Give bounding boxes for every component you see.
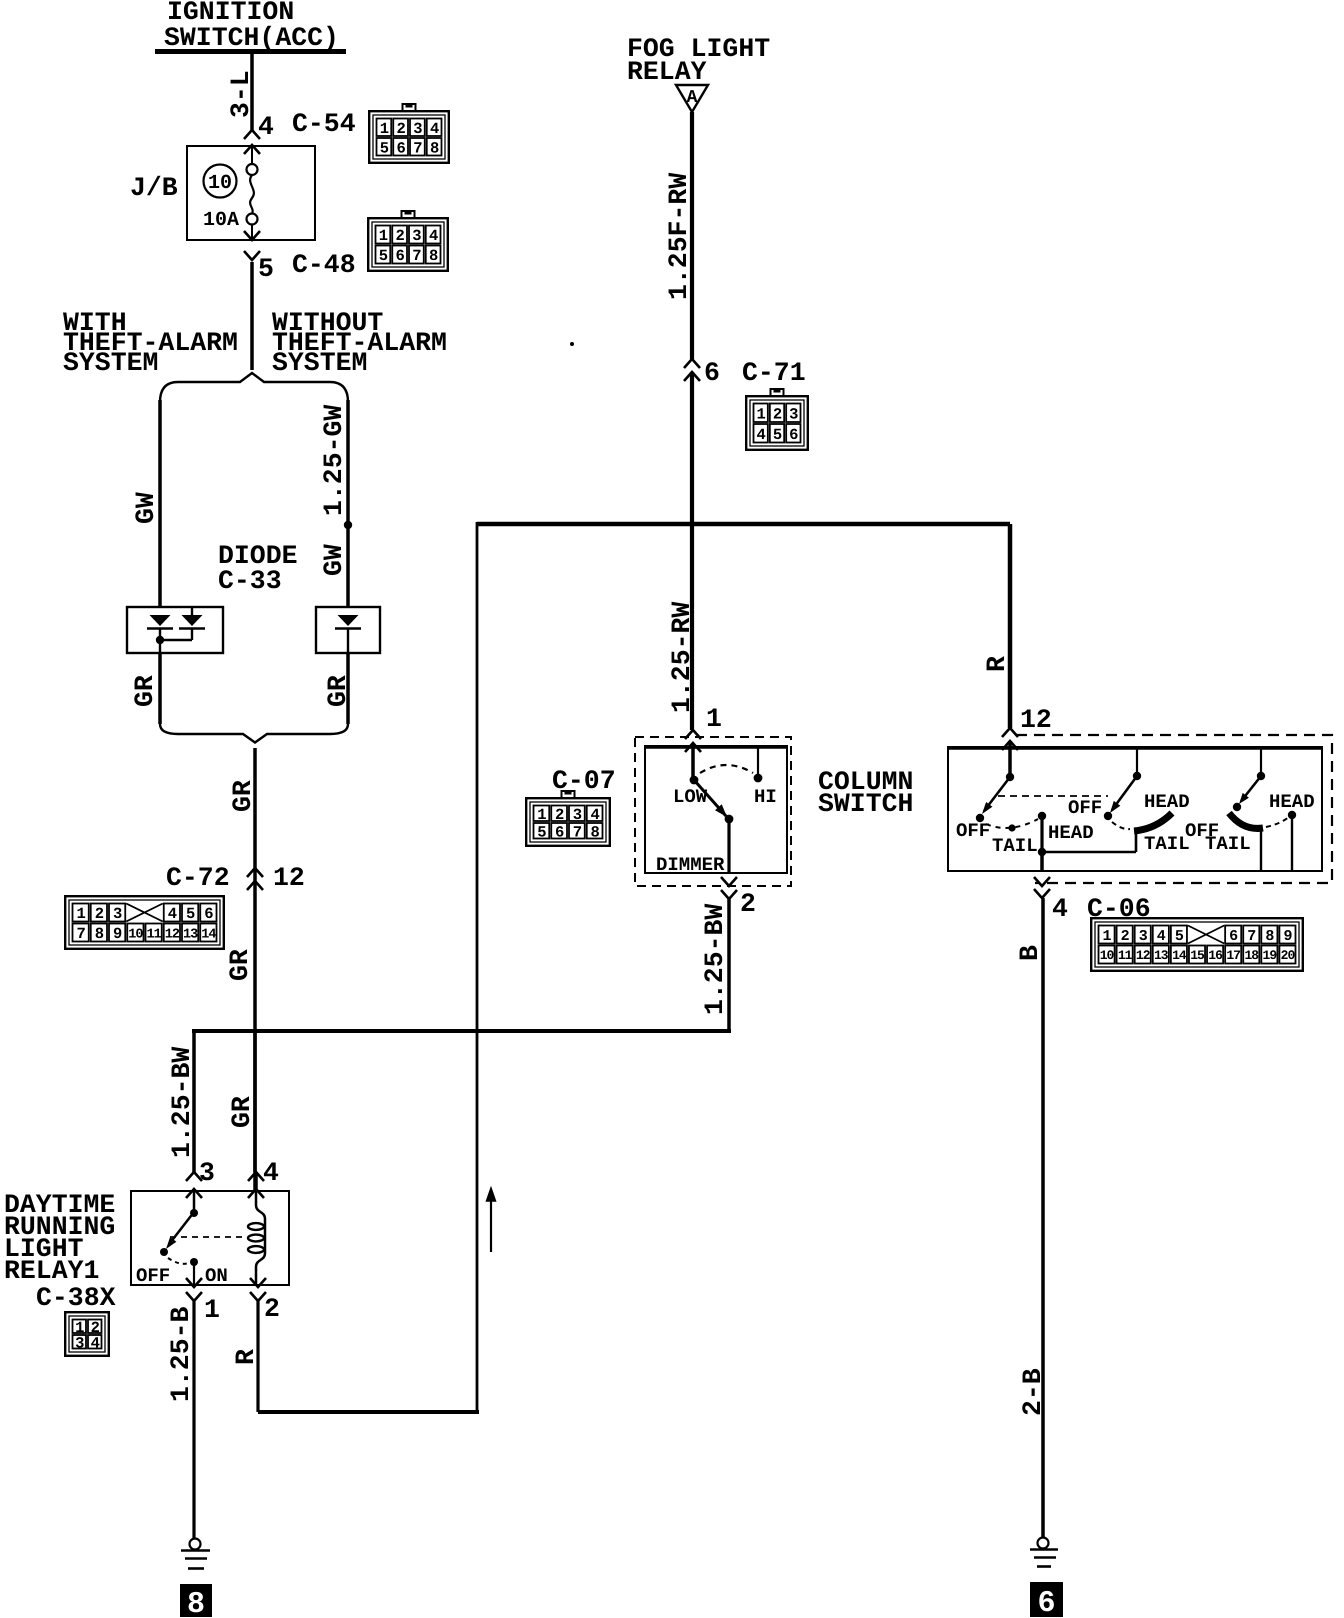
connector C-72 chevrons (pin 12) xyxy=(247,868,263,877)
lighting pole2 pivot dot xyxy=(1133,772,1141,780)
wire 1.25-BW from dimmer pin 2 xyxy=(727,899,731,1031)
relay lever xyxy=(170,1212,194,1243)
svg-text:16: 16 xyxy=(1208,948,1223,963)
svg-text:1: 1 xyxy=(1103,928,1112,945)
diode output join wire xyxy=(191,628,193,640)
connector C-71 chevrons (pin 6) xyxy=(684,359,700,368)
wire 3-L from ignition switch to connector C-54 xyxy=(250,54,254,130)
svg-text:4: 4 xyxy=(168,905,177,923)
svg-text:DIMMER: DIMMER xyxy=(656,854,725,876)
lighting pole2 lever xyxy=(1112,776,1137,810)
svg-text:6: 6 xyxy=(789,426,798,444)
dimmer lever pivot dot xyxy=(725,815,734,824)
svg-text:1.25-RW: 1.25-RW xyxy=(667,602,697,713)
wire GR main down from merge xyxy=(253,748,257,1191)
svg-text:3: 3 xyxy=(789,405,798,423)
svg-text:11: 11 xyxy=(147,927,162,942)
svg-text:13: 13 xyxy=(183,927,198,942)
svg-text:8: 8 xyxy=(590,823,599,841)
relay pin 2 chevrons xyxy=(250,1278,266,1287)
svg-text:4: 4 xyxy=(91,1334,100,1352)
svg-text:6: 6 xyxy=(395,247,404,265)
svg-text:J/B: J/B xyxy=(130,173,178,203)
svg-text:LOW: LOW xyxy=(673,786,708,808)
lighting pole3 pivot dot xyxy=(1257,772,1265,780)
svg-text:4: 4 xyxy=(590,806,599,824)
svg-text:7: 7 xyxy=(413,139,422,157)
svg-text:8: 8 xyxy=(1265,928,1274,945)
page reference 8 xyxy=(180,1584,212,1617)
wire R horizontal top run xyxy=(477,522,1010,527)
fuse number circle 10 xyxy=(204,165,237,198)
svg-text:3: 3 xyxy=(412,227,421,245)
svg-text:14: 14 xyxy=(1172,948,1187,963)
svg-text:19: 19 xyxy=(1263,948,1278,963)
lighting pole1 OFF dot xyxy=(976,814,984,822)
svg-text:C-06: C-06 xyxy=(1087,894,1151,924)
svg-text:HEAD: HEAD xyxy=(1048,822,1094,844)
ignition switch bus underline xyxy=(155,49,346,54)
relay box C-38X xyxy=(131,1191,289,1285)
fuse 10A symbol xyxy=(247,164,258,175)
svg-text:5: 5 xyxy=(379,247,388,265)
svg-text:4: 4 xyxy=(757,426,766,444)
svg-text:OFF: OFF xyxy=(136,1265,170,1287)
lighting pole1 TAIL dot xyxy=(1008,824,1015,831)
svg-text:13: 13 xyxy=(1154,948,1169,963)
connector C-54 pin icon xyxy=(369,104,449,163)
relay ON contact wire to pin 1 xyxy=(193,1262,195,1285)
svg-text:4: 4 xyxy=(258,112,274,142)
wire GW left branch xyxy=(158,400,162,607)
svg-text:12: 12 xyxy=(1136,948,1151,963)
wire lighting output to pin 4 xyxy=(1040,852,1044,871)
svg-text:5: 5 xyxy=(1175,928,1184,945)
connector C-54 chevrons (pin 4) xyxy=(244,130,260,139)
svg-text:RELAY1: RELAY1 xyxy=(4,1256,99,1286)
svg-text:4: 4 xyxy=(1052,894,1068,924)
svg-text:2: 2 xyxy=(773,405,782,423)
lighting pole1 lever xyxy=(984,777,1010,811)
diode D3 xyxy=(338,615,359,626)
lighting pole3 dashed arc xyxy=(1266,817,1289,827)
svg-text:R: R xyxy=(982,656,1012,672)
svg-text:5: 5 xyxy=(258,254,274,284)
svg-text:3: 3 xyxy=(75,1334,84,1352)
ground symbol (right) xyxy=(1038,1538,1049,1549)
svg-text:2: 2 xyxy=(95,905,104,923)
relay ON dot xyxy=(190,1258,198,1266)
svg-text:1: 1 xyxy=(379,227,388,245)
svg-text:1.25F-RW: 1.25F-RW xyxy=(664,173,694,300)
wire 1.25-BW down to relay pin 3 xyxy=(192,1031,196,1172)
wire GR to relay pin 4 xyxy=(253,1031,257,1172)
svg-text:1.25-B: 1.25-B xyxy=(166,1306,196,1402)
svg-text:14: 14 xyxy=(201,927,216,942)
dimmer HI contact dot xyxy=(754,774,763,783)
svg-text:B: B xyxy=(1015,945,1045,961)
lighting pole3 lever xyxy=(1242,776,1261,800)
lighting pole2 OFF dot xyxy=(1104,812,1112,820)
svg-text:18: 18 xyxy=(1244,948,1259,963)
lighting pole1 dashed arc xyxy=(986,819,1038,828)
svg-text:1.25-BW: 1.25-BW xyxy=(167,1047,197,1158)
column switch dashed box (dimmer) xyxy=(635,737,791,886)
relay contact pivot dot xyxy=(190,1209,198,1217)
junction block J/B box xyxy=(187,146,315,240)
svg-text:8: 8 xyxy=(95,925,104,943)
dimmer pin 2 chevrons xyxy=(721,877,737,886)
svg-text:6: 6 xyxy=(204,905,213,923)
svg-text:A: A xyxy=(687,88,698,108)
wire pole1-pole2 link xyxy=(1042,851,1136,854)
svg-text:C-54: C-54 xyxy=(292,109,356,139)
svg-text:OFF: OFF xyxy=(1068,797,1102,819)
dimmer HI contact wire xyxy=(757,747,759,778)
svg-text:7: 7 xyxy=(573,823,582,841)
svg-text:6: 6 xyxy=(396,139,405,157)
svg-text:4: 4 xyxy=(429,227,438,245)
svg-text:1.25-GW: 1.25-GW xyxy=(319,405,349,516)
lighting pole2 dashed arc xyxy=(1112,822,1130,829)
dimmer switch box xyxy=(645,746,787,873)
svg-text:2: 2 xyxy=(395,227,404,245)
svg-text:GR: GR xyxy=(225,949,255,981)
svg-text:1: 1 xyxy=(706,704,722,734)
svg-text:C-72: C-72 xyxy=(166,863,230,893)
svg-text:TAIL: TAIL xyxy=(1144,833,1190,855)
dimmer lever LOW xyxy=(694,780,726,816)
wire 1.25-BW horizontal run xyxy=(192,1029,731,1033)
branch split brace (top) xyxy=(160,373,348,402)
svg-text:2: 2 xyxy=(1121,928,1130,945)
svg-text:10: 10 xyxy=(1100,948,1115,963)
svg-text:3: 3 xyxy=(113,905,122,923)
svg-text:10A: 10A xyxy=(203,209,239,232)
svg-text:3: 3 xyxy=(413,120,422,138)
wire GR right below diode xyxy=(346,653,350,724)
connector C-07 pin icon xyxy=(526,791,610,846)
column switch dashed box (lighting) xyxy=(1016,735,1332,883)
dimmer LOW contact dot xyxy=(690,776,699,785)
relay coil xyxy=(256,1191,265,1285)
svg-text:6: 6 xyxy=(1037,1587,1055,1618)
lighting pole3 feed wire xyxy=(1260,748,1262,776)
svg-text:GR: GR xyxy=(228,780,258,812)
svg-text:SYSTEM: SYSTEM xyxy=(272,348,367,378)
connector C-38X pin icon xyxy=(65,1312,109,1356)
wire through left diode xyxy=(159,628,161,653)
svg-text:HEAD: HEAD xyxy=(1269,791,1315,813)
mechanical linkage dashed line xyxy=(998,795,1108,797)
svg-text:SWITCH: SWITCH xyxy=(818,789,913,819)
svg-text:5: 5 xyxy=(186,905,195,923)
svg-text:7: 7 xyxy=(1247,928,1255,945)
svg-text:20: 20 xyxy=(1281,948,1296,963)
wire 1.25-B to ground xyxy=(192,1301,195,1538)
svg-text:12: 12 xyxy=(1020,705,1052,735)
svg-text:GR: GR xyxy=(323,675,353,707)
wire from fuse to J/B bottom xyxy=(251,224,253,240)
svg-text:8: 8 xyxy=(187,1588,205,1618)
svg-text:5: 5 xyxy=(773,426,782,444)
connector C-48 chevrons (pin 5) xyxy=(244,231,260,240)
wire GR left below diode xyxy=(158,653,162,724)
connector C-48 pin icon xyxy=(368,211,448,271)
relay pin 3 chevrons xyxy=(186,1172,202,1181)
svg-text:C-71: C-71 xyxy=(742,358,806,388)
svg-text:GW: GW xyxy=(131,492,161,524)
svg-text:HI: HI xyxy=(754,786,777,808)
relay pin 1 chevrons xyxy=(186,1278,202,1287)
lighting pole3 contact arc xyxy=(1229,813,1263,828)
connector C-71 pin icon xyxy=(746,389,808,450)
svg-text:12: 12 xyxy=(165,927,180,942)
svg-text:2: 2 xyxy=(396,120,405,138)
wire HEAD contact down xyxy=(1040,816,1043,852)
svg-text:5: 5 xyxy=(537,823,546,841)
svg-text:1.25-BW: 1.25-BW xyxy=(700,904,730,1015)
wire pole3 HEAD contact down xyxy=(1291,815,1293,871)
svg-text:3: 3 xyxy=(1139,928,1148,945)
svg-text:6: 6 xyxy=(1229,928,1238,945)
lighting switch box xyxy=(948,747,1322,871)
svg-text:12: 12 xyxy=(273,863,305,893)
wire R from relay pin 2 xyxy=(256,1301,259,1412)
svg-text:SYSTEM: SYSTEM xyxy=(63,348,158,378)
lighting pin 4 chevrons xyxy=(1034,877,1050,886)
svg-text:2: 2 xyxy=(555,806,564,824)
svg-text:4: 4 xyxy=(430,120,439,138)
branch merge brace (bottom) xyxy=(160,724,348,743)
svg-text:3: 3 xyxy=(199,1158,215,1188)
diode D1 xyxy=(150,615,171,626)
junction dot on right branch xyxy=(344,521,352,529)
svg-text:1: 1 xyxy=(757,405,766,423)
svg-text:6: 6 xyxy=(555,823,564,841)
svg-text:C-48: C-48 xyxy=(292,250,356,280)
wire R down segment to lighting switch xyxy=(1008,524,1013,728)
svg-text:1: 1 xyxy=(380,120,389,138)
wire R corner down xyxy=(476,522,479,1412)
svg-text:3: 3 xyxy=(573,806,582,824)
wire R bottom run xyxy=(258,1410,479,1414)
dimmer dashed arc LOW-HI xyxy=(700,765,753,773)
svg-text:5: 5 xyxy=(380,139,389,157)
svg-text:HEAD: HEAD xyxy=(1144,791,1190,813)
wire from C-48 down to theft-alarm branch xyxy=(250,262,254,370)
svg-text:C-38X: C-38X xyxy=(36,1283,116,1313)
svg-text:2-B: 2-B xyxy=(1018,1368,1048,1416)
svg-text:TAIL: TAIL xyxy=(1205,833,1251,855)
lighting switch pin 12 chevrons xyxy=(1002,728,1018,737)
relay dashed arc xyxy=(168,1258,189,1264)
svg-text:10: 10 xyxy=(208,172,232,195)
lighting pole2 contact arc xyxy=(1134,813,1172,831)
stray printing dot xyxy=(570,342,574,346)
svg-text:TAIL: TAIL xyxy=(992,835,1038,857)
connector C-72 pin icon xyxy=(65,896,224,949)
svg-text:4: 4 xyxy=(263,1158,279,1188)
svg-text:3-L: 3-L xyxy=(226,70,256,118)
svg-text:7: 7 xyxy=(76,925,85,943)
svg-text:GW: GW xyxy=(319,544,349,576)
svg-text:8: 8 xyxy=(429,247,438,265)
relay OFF dot xyxy=(160,1248,168,1256)
svg-text:GR: GR xyxy=(130,675,160,707)
lighting pole1 HEAD dot xyxy=(1038,812,1046,820)
svg-text:1: 1 xyxy=(204,1295,220,1325)
ground symbol (left) xyxy=(190,1539,201,1550)
svg-text:7: 7 xyxy=(412,247,421,265)
lighting pole1 feed wire xyxy=(1008,741,1012,777)
dimmer pin 1 chevrons xyxy=(685,730,701,739)
dimmer feed wire to LOW contact xyxy=(691,748,695,780)
diode box (with theft-alarm) xyxy=(127,607,223,653)
diode D2 xyxy=(182,615,203,626)
svg-text:GR: GR xyxy=(227,1096,257,1128)
svg-text:11: 11 xyxy=(1118,948,1133,963)
svg-text:6: 6 xyxy=(704,358,720,388)
svg-text:RELAY: RELAY xyxy=(627,57,707,87)
svg-text:4: 4 xyxy=(1157,928,1166,945)
wire 1.25-RW to dimmer switch xyxy=(690,372,694,730)
fog light relay triangle A xyxy=(676,85,708,112)
wire pole3 TAIL contact down xyxy=(1260,829,1262,871)
svg-text:17: 17 xyxy=(1226,948,1240,963)
wire B from lighting switch pin 4 xyxy=(1041,898,1045,1537)
svg-text:1: 1 xyxy=(76,905,85,923)
diode join dot xyxy=(156,636,164,644)
svg-text:9: 9 xyxy=(113,925,122,943)
svg-text:C-33: C-33 xyxy=(218,566,282,596)
wire 1.25-GW right branch xyxy=(346,400,350,607)
lighting pole2 feed wire xyxy=(1136,748,1138,776)
svg-text:8: 8 xyxy=(430,139,439,157)
relay pin 4 chevrons xyxy=(248,1172,264,1181)
signal direction arrow xyxy=(490,1200,492,1252)
page reference 6 xyxy=(1030,1582,1063,1617)
lighting pole3 lever dot xyxy=(1233,803,1241,811)
relay contact feed xyxy=(193,1191,196,1213)
svg-text:OFF: OFF xyxy=(956,820,990,842)
svg-text:10: 10 xyxy=(128,927,143,942)
svg-text:1: 1 xyxy=(537,806,546,824)
svg-text:2: 2 xyxy=(264,1294,280,1324)
wire inside J/B to fuse xyxy=(251,146,253,164)
svg-text:R: R xyxy=(231,1349,261,1365)
svg-text:SWITCH(ACC): SWITCH(ACC) xyxy=(164,23,339,53)
svg-text:9: 9 xyxy=(1283,928,1292,945)
connector C-06 pin icon xyxy=(1091,918,1303,971)
diode box (without theft-alarm) xyxy=(316,607,380,653)
svg-text:15: 15 xyxy=(1190,948,1205,963)
dimmer output wire to pin 2 xyxy=(727,819,730,874)
svg-text:2: 2 xyxy=(740,889,756,919)
svg-text:ON: ON xyxy=(205,1265,228,1287)
wire 1.25F-RW xyxy=(690,112,694,359)
lighting pole1 pivot dot xyxy=(1006,773,1014,781)
relay linkage dashed line xyxy=(170,1236,246,1238)
lighting pole3 HEAD dot xyxy=(1288,811,1296,819)
junction dot pole1 output xyxy=(1038,848,1046,856)
